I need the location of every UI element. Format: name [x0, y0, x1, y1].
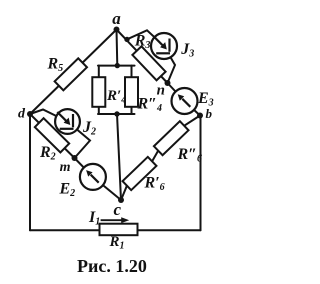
- svg-text:n: n: [157, 83, 165, 99]
- wire J3 loop top: [127, 30, 164, 46]
- wire J2 loop bottom: [68, 122, 91, 159]
- svg-text:c: c: [114, 200, 122, 219]
- current source J2: [55, 109, 80, 134]
- wire d-a diagonal: [30, 30, 117, 115]
- resistor R1: [100, 224, 138, 236]
- wire R4 right branch: [131, 66, 133, 114]
- svg-text:a: a: [112, 9, 121, 28]
- node b: [197, 113, 203, 119]
- wire R4 left branch: [98, 66, 100, 114]
- svg-text:R5: R5: [47, 55, 64, 74]
- wire b-c diagonal: [121, 116, 200, 201]
- wire R4 top bar: [98, 65, 135, 67]
- wire d-m diagonal: [30, 114, 75, 158]
- svg-text:J2: J2: [82, 119, 96, 138]
- svg-text:R1: R1: [109, 234, 125, 252]
- svg-text:E3: E3: [197, 90, 214, 109]
- current arrow I1: [101, 217, 130, 223]
- svg-text:E2: E2: [59, 181, 76, 200]
- wire bottom rail: [30, 229, 201, 231]
- wire left rail: [29, 114, 31, 230]
- node d: [27, 111, 33, 117]
- wire a to R4 block top: [116, 30, 119, 66]
- wire R4 bottom bar: [98, 113, 135, 115]
- current source J3: [151, 33, 177, 59]
- node c: [118, 197, 124, 203]
- wire m-E2-c: [75, 158, 122, 200]
- wire n-E3-b: [168, 83, 201, 116]
- resistor R'4: [92, 77, 105, 107]
- svg-text:Рис. 1.20: Рис. 1.20: [77, 256, 147, 276]
- svg-text:J3: J3: [180, 41, 194, 60]
- svg-text:m: m: [60, 160, 71, 175]
- wire R4 block bottom to c: [117, 114, 121, 200]
- node a: [114, 27, 120, 33]
- svg-text:d: d: [18, 106, 26, 121]
- EMF source E2: [80, 164, 106, 190]
- wire J2 loop top: [30, 110, 68, 122]
- svg-text:R″6: R″6: [177, 146, 203, 165]
- resistor R5: [55, 58, 87, 90]
- svg-text:I1: I1: [88, 209, 100, 228]
- svg-text:R2: R2: [39, 144, 56, 163]
- resistor R''4: [125, 77, 138, 107]
- svg-text:R′4: R′4: [106, 88, 126, 105]
- resistor R''6: [154, 121, 189, 155]
- junction R4 top: [115, 63, 120, 68]
- junction R4 bottom: [114, 111, 119, 116]
- EMF source E3: [172, 88, 198, 114]
- svg-text:R′6: R′6: [144, 174, 165, 193]
- wire right rail: [200, 116, 202, 231]
- resistor R2: [35, 118, 69, 152]
- node n: [165, 80, 171, 86]
- resistor R'6: [123, 157, 157, 190]
- junction on a-n wire: [124, 37, 129, 42]
- wire J3 loop bottom: [164, 46, 175, 83]
- wire a-n diagonal: [117, 30, 168, 84]
- resistor R3: [132, 46, 165, 80]
- svg-text:R3: R3: [134, 32, 151, 51]
- node m: [72, 155, 78, 161]
